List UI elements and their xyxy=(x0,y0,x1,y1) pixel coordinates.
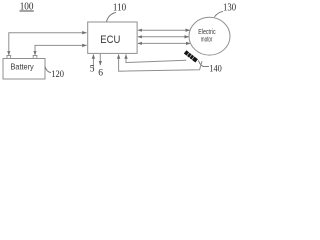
sensor feedback wire lower into ECU xyxy=(119,54,202,71)
svg-text:motor: motor xyxy=(201,34,213,43)
svg-text:120: 120 xyxy=(51,69,64,80)
electric motor M130 circle xyxy=(189,17,230,55)
wire battery t1 to ECU (double arrow) xyxy=(9,33,87,55)
battery terminal 1 xyxy=(7,56,11,59)
Battery 120 box xyxy=(3,59,45,80)
svg-text:140: 140 xyxy=(209,64,222,74)
svg-text:ECU: ECU xyxy=(100,34,120,46)
ECU U110 box xyxy=(88,22,137,53)
leader to 130 xyxy=(215,11,224,16)
signal 5 arrow into ECU bottom xyxy=(92,54,94,68)
motor phase line B (double arrow) xyxy=(138,36,189,38)
svg-text:130: 130 xyxy=(223,3,236,14)
leader to 140 xyxy=(198,60,209,66)
battery terminal 2 xyxy=(33,56,37,59)
svg-text:110: 110 xyxy=(113,3,126,14)
rotation sensor 140 (hatched band on motor rim) xyxy=(184,50,198,63)
leader to 120 xyxy=(45,66,51,72)
motor phase line A (double arrow) xyxy=(138,29,190,31)
motor phase line C (double arrow) xyxy=(138,42,190,44)
sensor feedback wire upper into ECU xyxy=(126,54,186,62)
svg-text:5: 5 xyxy=(90,64,95,75)
svg-text:Battery: Battery xyxy=(11,62,35,72)
svg-text:6: 6 xyxy=(98,68,103,79)
wire battery t2 to ECU (double arrow) xyxy=(35,45,87,55)
signal 6 arrow out of ECU bottom xyxy=(99,54,101,65)
leader to 110 xyxy=(107,12,117,21)
